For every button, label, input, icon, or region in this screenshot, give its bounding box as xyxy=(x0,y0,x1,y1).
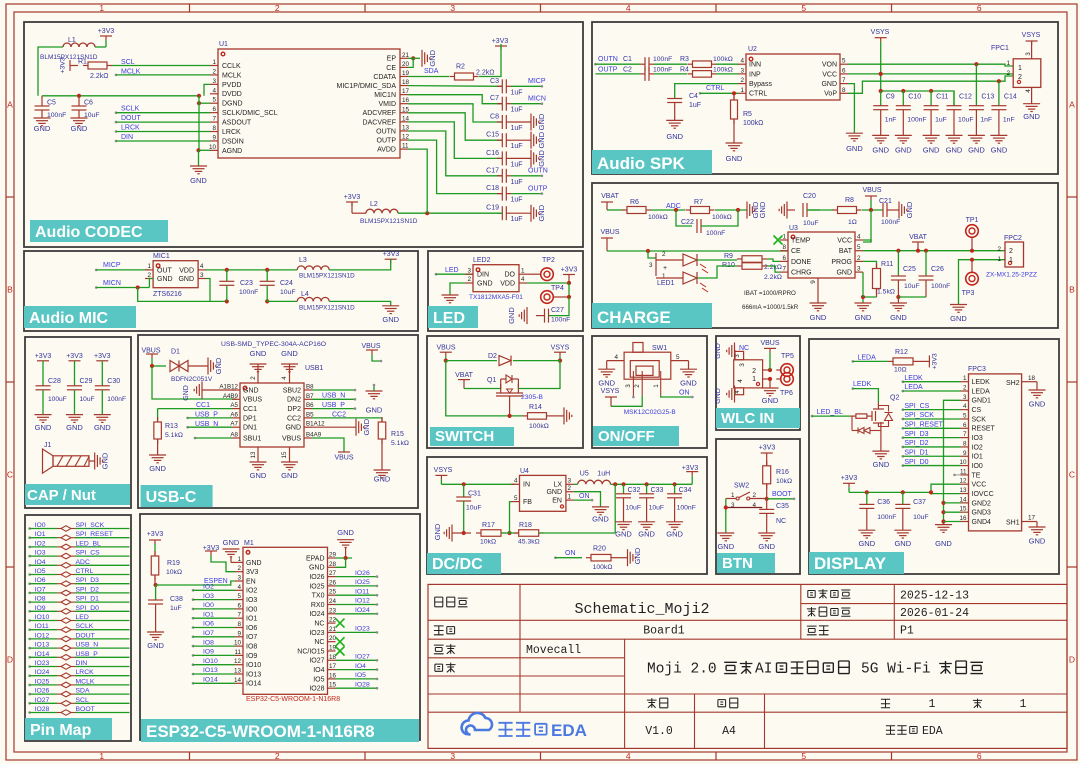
wire pin1 row xyxy=(959,258,1014,305)
svg-text:GND: GND xyxy=(243,387,259,394)
svg-text:LED: LED xyxy=(445,267,459,274)
svg-text:ADC: ADC xyxy=(666,203,681,210)
svg-text:J1: J1 xyxy=(44,442,52,449)
svg-text:R2: R2 xyxy=(456,64,465,71)
svg-text:+3V3: +3V3 xyxy=(94,353,111,360)
svg-text:DIN: DIN xyxy=(76,660,88,667)
svg-text:4: 4 xyxy=(514,478,518,485)
svg-text:Pin Map: Pin Map xyxy=(30,722,92,739)
wire B1A12 xyxy=(312,426,356,428)
svg-text:1: 1 xyxy=(963,375,967,382)
svg-text:IO28: IO28 xyxy=(35,706,50,713)
M1 left io wires xyxy=(192,589,195,592)
resistor R18 xyxy=(519,530,539,537)
svg-text:IO0: IO0 xyxy=(203,602,214,609)
svg-text:GND: GND xyxy=(34,124,51,133)
block header USB-C xyxy=(141,485,213,507)
resistor R13 xyxy=(157,409,159,421)
svg-text:6: 6 xyxy=(782,255,786,262)
svg-text:USB_P: USB_P xyxy=(76,651,99,658)
svg-text:C12: C12 xyxy=(959,94,972,101)
svg-text:DO: DO xyxy=(505,272,516,279)
junction R7 out xyxy=(736,208,740,212)
title 更新日期 xyxy=(807,607,816,616)
svg-text:100kΩ: 100kΩ xyxy=(713,56,733,63)
svg-text:4: 4 xyxy=(740,58,744,65)
title 绘制 xyxy=(434,645,444,654)
svg-text:GND: GND xyxy=(905,201,914,218)
svg-text:MICN: MICN xyxy=(528,96,546,103)
svg-text:C28: C28 xyxy=(48,378,61,385)
svg-text:SCL: SCL xyxy=(76,697,89,704)
svg-text:WLC IN: WLC IN xyxy=(721,410,774,427)
svg-text:C34: C34 xyxy=(679,487,692,494)
wire PVDD xyxy=(204,84,210,95)
wire sw1 vsys xyxy=(611,396,642,407)
svg-text:FPC2: FPC2 xyxy=(1004,235,1022,242)
svg-text:GND: GND xyxy=(950,314,967,323)
svg-text:IO6: IO6 xyxy=(35,577,46,584)
junction led3v3 xyxy=(567,281,571,285)
svg-text:3: 3 xyxy=(1025,52,1032,56)
svg-text:C18: C18 xyxy=(486,185,499,192)
svg-text:3: 3 xyxy=(739,363,746,367)
wire Bypass xyxy=(675,84,738,99)
svg-text:R16: R16 xyxy=(776,469,789,476)
power +3V3 r12 xyxy=(928,355,930,367)
svg-text:Board1: Board1 xyxy=(643,625,685,638)
svg-text:100nF: 100nF xyxy=(653,66,672,73)
block header BTN xyxy=(717,553,775,573)
wire micn-rail xyxy=(138,288,227,302)
svg-text:3: 3 xyxy=(467,267,471,274)
svg-text:GND: GND xyxy=(537,204,546,221)
svg-text:9: 9 xyxy=(237,630,241,637)
svg-text:R18: R18 xyxy=(519,522,532,529)
ground float xyxy=(366,390,383,392)
svg-text:IO14: IO14 xyxy=(203,677,218,684)
svg-text:CHRG: CHRG xyxy=(791,270,812,277)
svg-text:2: 2 xyxy=(250,376,257,380)
resistor R17 xyxy=(464,532,471,534)
node LEDK disp xyxy=(852,387,855,390)
svg-text:2.2kΩ: 2.2kΩ xyxy=(476,70,494,77)
wire R4-INP xyxy=(716,73,738,75)
power VSYS FPC1 xyxy=(1026,40,1038,42)
svg-text:U3: U3 xyxy=(789,225,798,232)
svg-text:MCLK: MCLK xyxy=(76,678,95,685)
svg-text:11: 11 xyxy=(234,649,241,656)
svg-text:C33: C33 xyxy=(651,487,664,494)
wire espen xyxy=(156,581,235,585)
svg-text:U4: U4 xyxy=(520,468,529,475)
svg-text:15: 15 xyxy=(329,682,337,689)
junction vd3 xyxy=(929,490,933,494)
svg-text:C29: C29 xyxy=(80,378,93,385)
svg-text:3: 3 xyxy=(237,575,241,582)
svg-text:C3: C3 xyxy=(490,78,499,85)
resistor R19 xyxy=(154,551,156,556)
svg-text:IO13: IO13 xyxy=(35,642,50,649)
svg-text:4: 4 xyxy=(237,584,241,591)
svg-text:LEDA: LEDA xyxy=(904,384,923,391)
usb USB1 box xyxy=(240,383,304,447)
svg-text:3: 3 xyxy=(857,266,861,273)
svg-text:R8: R8 xyxy=(845,197,854,204)
wire VCC right xyxy=(863,240,871,242)
svg-text:1uF: 1uF xyxy=(689,102,701,109)
svg-text:IO10: IO10 xyxy=(203,658,218,665)
svg-text:IO10: IO10 xyxy=(246,662,261,669)
svg-text:1: 1 xyxy=(1018,65,1022,72)
svg-text:GND: GND xyxy=(362,418,371,435)
wires SCLK DOUT LRCK DIN xyxy=(115,111,118,114)
svg-text:8: 8 xyxy=(782,244,786,251)
junction out2 xyxy=(621,482,625,486)
svg-text:GND: GND xyxy=(149,464,166,473)
wire U3gnd xyxy=(862,272,864,297)
ground C6 xyxy=(71,117,88,119)
svg-text:GND: GND xyxy=(821,81,837,88)
svg-text:VSYS: VSYS xyxy=(1022,32,1041,39)
ground R5 xyxy=(726,142,743,144)
svg-text:17: 17 xyxy=(329,663,337,670)
ground C25 xyxy=(890,302,907,304)
ground C5 xyxy=(34,117,51,119)
svg-text:LX: LX xyxy=(553,482,562,489)
capacitor C4 xyxy=(667,98,682,100)
power +3V3 disp xyxy=(843,482,855,484)
capacitor C27 xyxy=(549,297,570,316)
svg-text:+3V3: +3V3 xyxy=(383,251,400,258)
svg-text:EN: EN xyxy=(552,498,562,505)
svg-text:VMID: VMID xyxy=(379,101,397,108)
svg-text:9: 9 xyxy=(810,280,817,284)
wire C1-R3 xyxy=(654,63,687,65)
svg-text:GND: GND xyxy=(433,523,442,540)
svg-text:8: 8 xyxy=(842,87,846,94)
svg-text:6: 6 xyxy=(212,106,216,113)
svg-text:USB_N: USB_N xyxy=(76,642,99,649)
block header ON/OFF xyxy=(593,426,679,446)
svg-text:LEDK: LEDK xyxy=(904,375,923,382)
block outline WLC IN xyxy=(716,336,800,430)
svg-text:DIN: DIN xyxy=(477,272,489,279)
op U1 box xyxy=(218,49,400,158)
svg-text:IO9: IO9 xyxy=(203,649,214,656)
wire led-R10 xyxy=(697,266,737,278)
wire sw bottom xyxy=(446,361,523,416)
svg-text:C32: C32 xyxy=(628,487,641,494)
wire A8 xyxy=(194,437,197,440)
wire VDD-3V3 xyxy=(527,282,569,284)
wire fb sense xyxy=(614,484,616,533)
svg-text:ON: ON xyxy=(579,493,590,500)
svg-text:8: 8 xyxy=(237,621,241,628)
svg-text:SW2: SW2 xyxy=(734,483,749,490)
svg-text:VBUS: VBUS xyxy=(334,455,353,462)
svg-text:R20: R20 xyxy=(593,546,606,553)
wire R6-R7 xyxy=(651,209,685,211)
svg-text:D: D xyxy=(7,655,13,665)
capacitor C25 xyxy=(897,251,899,276)
svg-text:2305-B: 2305-B xyxy=(521,394,543,401)
FPC3 net wires xyxy=(902,380,905,383)
svg-text:1: 1 xyxy=(782,234,786,241)
svg-text:IBAT =1000/RPRO: IBAT =1000/RPRO xyxy=(744,290,796,297)
svg-text:1: 1 xyxy=(1006,60,1010,67)
wire OUTN xyxy=(595,63,640,65)
TE stub xyxy=(953,474,956,477)
svg-text:VBAT: VBAT xyxy=(601,193,619,200)
wire L1 xyxy=(38,47,63,96)
svg-text:12: 12 xyxy=(959,478,967,485)
svg-text:IO1: IO1 xyxy=(246,616,257,623)
wire on-r20 xyxy=(555,557,582,559)
resistor R11 xyxy=(873,269,881,289)
svg-text:2.2kΩ: 2.2kΩ xyxy=(764,274,782,281)
svg-text:IO26: IO26 xyxy=(309,574,324,581)
M1 right pins xyxy=(328,557,336,559)
logo cloud xyxy=(462,713,492,735)
wire R9-DONE xyxy=(767,259,780,261)
svg-text:100kΩ: 100kΩ xyxy=(648,214,668,221)
wire B7 xyxy=(312,398,355,400)
svg-text:R17: R17 xyxy=(482,522,495,529)
svg-text:4: 4 xyxy=(281,376,288,380)
svg-text:2: 2 xyxy=(963,385,967,392)
svg-text:IO2: IO2 xyxy=(972,444,983,451)
svg-text:GND: GND xyxy=(968,146,985,155)
svg-text:VBUS: VBUS xyxy=(282,435,301,442)
power VBAT charge xyxy=(601,201,613,203)
wire micn-pin2 xyxy=(149,279,153,288)
led driver LED2 box xyxy=(473,265,519,292)
svg-text:SPI_D0: SPI_D0 xyxy=(76,605,100,612)
svg-text:BLM15PX121SN1D: BLM15PX121SN1D xyxy=(299,305,355,312)
wire vcc rail xyxy=(849,484,961,492)
svg-text:3: 3 xyxy=(568,478,572,485)
svg-text:CCLK: CCLK xyxy=(222,63,241,70)
svg-text:1: 1 xyxy=(752,376,756,383)
svg-text:100kΩ: 100kΩ xyxy=(529,423,549,430)
wire vbus-d1 xyxy=(152,365,166,367)
svg-text:1: 1 xyxy=(521,267,525,274)
svg-text:5: 5 xyxy=(857,244,861,251)
block outline LED xyxy=(428,251,583,331)
ground R13 xyxy=(149,454,166,456)
svg-text:SW1: SW1 xyxy=(652,345,667,352)
svg-text:18: 18 xyxy=(1028,375,1036,382)
block outline Audio SPK xyxy=(592,22,1058,174)
svg-text:CHARGE: CHARGE xyxy=(597,308,671,327)
svg-text:2.2kΩ: 2.2kΩ xyxy=(764,264,782,271)
svg-text:Schematic_Moji2: Schematic_Moji2 xyxy=(574,601,709,618)
svg-text:GND: GND xyxy=(337,528,354,537)
svg-text:C31: C31 xyxy=(468,491,481,498)
svg-text:+3V3: +3V3 xyxy=(66,353,83,360)
svg-text:IO3: IO3 xyxy=(35,550,46,557)
junction sw vbus xyxy=(444,359,448,363)
block outline DISPLAY xyxy=(809,339,1059,574)
nc TEMP xyxy=(774,236,783,245)
svg-text:100nF: 100nF xyxy=(877,514,896,521)
svg-text:VBUS: VBUS xyxy=(361,343,380,350)
node OUTN xyxy=(594,63,597,66)
svg-text:1uF: 1uF xyxy=(511,143,523,150)
svg-text:BOOT: BOOT xyxy=(76,706,95,713)
svg-text:V1.0: V1.0 xyxy=(645,725,673,738)
svg-text:GND: GND xyxy=(477,280,493,287)
wires U1 to cap ladder xyxy=(408,85,502,88)
svg-text:ADC: ADC xyxy=(76,559,90,566)
wire led_bl xyxy=(811,415,814,418)
svg-text:TP6: TP6 xyxy=(780,390,793,397)
svg-text:Audio MIC: Audio MIC xyxy=(29,310,109,327)
svg-text:GND: GND xyxy=(991,146,1008,155)
capacitor C26 xyxy=(925,251,927,276)
svg-text:GND: GND xyxy=(366,406,383,415)
connector FPC3 box xyxy=(969,374,1022,531)
power VBUS inv xyxy=(338,451,350,453)
capacitor C5 xyxy=(41,96,43,106)
capacitor C6 xyxy=(78,96,80,106)
svg-text:DOUT: DOUT xyxy=(76,632,95,639)
wire VCC xyxy=(848,73,1013,75)
wire CC1 xyxy=(158,408,232,410)
junction out4 xyxy=(673,482,677,486)
svg-text:SPI_SCK: SPI_SCK xyxy=(76,522,105,529)
wire rail2 xyxy=(267,300,297,302)
svg-text:GND: GND xyxy=(935,539,952,548)
resistor R20 xyxy=(591,554,611,561)
ground sh2 xyxy=(1029,389,1046,391)
junction sw vsys xyxy=(558,359,562,363)
junction bat1 xyxy=(896,249,900,253)
junction bat2 xyxy=(916,249,920,253)
svg-text:VBUS: VBUS xyxy=(862,187,881,194)
svg-text:2: 2 xyxy=(467,276,471,283)
svg-text:DN1: DN1 xyxy=(243,425,257,432)
svg-text:DIN: DIN xyxy=(121,134,133,141)
svg-text:5: 5 xyxy=(801,751,806,761)
svg-text:GND: GND xyxy=(428,49,437,66)
svg-text:MSK12C02G25-B: MSK12C02G25-B xyxy=(624,409,676,416)
svg-text:100nF: 100nF xyxy=(677,505,696,512)
svg-text:IO3: IO3 xyxy=(972,435,983,442)
ground c37 xyxy=(894,529,911,531)
svg-text:C13: C13 xyxy=(981,94,994,101)
svg-text:6: 6 xyxy=(963,422,967,429)
wire GND pin7 xyxy=(848,84,854,134)
svg-text:GND: GND xyxy=(178,276,194,283)
svg-text:10kΩ: 10kΩ xyxy=(776,478,792,485)
svg-text:C: C xyxy=(1069,470,1075,480)
svg-text:4: 4 xyxy=(1025,89,1032,93)
svg-text:+3V3: +3V3 xyxy=(492,38,509,45)
svg-text:BAT: BAT xyxy=(839,248,853,255)
svg-text:16: 16 xyxy=(959,515,967,522)
title block grid xyxy=(428,584,1067,748)
svg-text:P1: P1 xyxy=(900,625,914,638)
svg-text:45.3kΩ: 45.3kΩ xyxy=(518,539,540,546)
wire EP-CE xyxy=(411,56,415,60)
svg-text:1: 1 xyxy=(147,263,151,270)
wire B8 xyxy=(312,389,355,391)
capacitors C3 C7 C8 C15 C16 C17 C18 C19 xyxy=(501,79,503,93)
svg-text:C: C xyxy=(7,470,13,480)
svg-text:666mA =1000/1.5kR: 666mA =1000/1.5kR xyxy=(742,304,799,311)
junction r17 r xyxy=(507,531,511,535)
ground wlc3 xyxy=(762,387,779,389)
svg-text:29: 29 xyxy=(329,552,337,559)
svg-text:IO2: IO2 xyxy=(203,584,214,591)
svg-text:5: 5 xyxy=(676,354,680,361)
svg-text:R4: R4 xyxy=(680,66,689,73)
svg-text:26: 26 xyxy=(329,579,337,586)
wire epad xyxy=(336,557,353,559)
svg-text:4: 4 xyxy=(626,751,631,761)
wire SDA xyxy=(408,76,449,78)
svg-text:8: 8 xyxy=(212,125,216,132)
wire vsys-in xyxy=(441,483,515,485)
svg-text:GND: GND xyxy=(507,307,516,324)
svg-text:C7: C7 xyxy=(490,95,499,102)
svg-text:R14: R14 xyxy=(529,404,542,411)
svg-text:10uF: 10uF xyxy=(904,283,920,290)
junction bat3 xyxy=(924,249,928,253)
svg-text:GND: GND xyxy=(715,388,722,404)
svg-text:GND: GND xyxy=(66,423,83,432)
svg-text:Audio CODEC: Audio CODEC xyxy=(35,224,143,241)
svg-text:A: A xyxy=(1069,100,1075,110)
svg-text:3V3: 3V3 xyxy=(246,569,259,576)
svg-text:2: 2 xyxy=(275,3,280,13)
svg-text:ZTS6216: ZTS6216 xyxy=(153,291,182,298)
svg-text:IO27: IO27 xyxy=(309,658,324,665)
svg-text:4: 4 xyxy=(857,234,861,241)
svg-text:GND: GND xyxy=(223,538,240,547)
svg-text:IO24: IO24 xyxy=(309,611,324,618)
ground R7 side xyxy=(746,202,748,219)
M1 right io wires xyxy=(336,576,378,578)
svg-text:SDA: SDA xyxy=(76,688,90,695)
junction out3 xyxy=(645,482,649,486)
pin map rows xyxy=(28,527,31,530)
svg-text:CTRL: CTRL xyxy=(76,568,94,575)
svg-text:14: 14 xyxy=(234,677,242,684)
svg-text:VON: VON xyxy=(822,62,837,69)
block header Audio SPK xyxy=(592,150,712,174)
svg-text:GND: GND xyxy=(94,423,111,432)
svg-text:DACVREF: DACVREF xyxy=(363,119,396,126)
svg-text:USB1: USB1 xyxy=(305,365,323,372)
svg-text:GND: GND xyxy=(615,530,632,539)
svg-text:+3V3: +3V3 xyxy=(841,475,858,482)
svg-text:SPI_D3: SPI_D3 xyxy=(904,431,928,438)
svg-text:100nF: 100nF xyxy=(107,396,126,403)
svg-text:100nF: 100nF xyxy=(551,317,570,324)
capacitors C9-C14 xyxy=(880,91,882,106)
svg-text:FPC3: FPC3 xyxy=(968,366,986,373)
svg-text:GND: GND xyxy=(890,313,907,322)
junction bus-U1 xyxy=(197,94,201,98)
capacitor C20 xyxy=(802,203,804,217)
svg-text:IO1: IO1 xyxy=(972,454,983,461)
svg-text:IO9: IO9 xyxy=(35,605,46,612)
wire iovcc xyxy=(931,492,961,493)
power +3V3 dcdc xyxy=(686,471,698,473)
